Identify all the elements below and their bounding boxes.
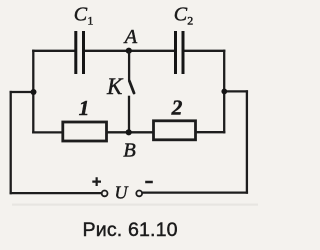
svg-text:C: C [174,4,188,26]
faint page shadow streak [12,204,258,206]
wire node A to C2 left plate [129,50,174,52]
capacitor C1 [74,4,94,75]
svg-text:B: B [123,140,136,162]
svg-text:C: C [74,4,88,26]
battery U: plus sign [92,177,101,186]
svg-text:1: 1 [87,14,93,28]
svg-text:2: 2 [171,96,183,120]
battery U: - terminal circle [136,191,142,197]
wire R1 to node B [107,131,129,133]
svg-text:A: A [123,26,138,48]
node A [123,26,138,54]
wire C1 right plate to node A [85,50,129,52]
capacitor C2 [174,4,194,75]
svg-text:K: K [106,74,124,99]
wire resistor row: left wall to R1 [33,131,62,133]
battery U: + terminal circle [102,191,108,197]
wire left outer vertical [10,92,12,193]
junction node on right wall [221,89,227,95]
wire right branch to outer loop [224,90,247,92]
wire bottom left to + terminal [11,192,102,194]
svg-text:1: 1 [79,96,90,120]
wire top rail left (left wall to C1 left plate) [33,50,74,52]
junction node on left wall [31,89,37,95]
wire C2 right plate to top-right corner [185,50,225,52]
wire right outer vertical [246,91,248,192]
switch K [129,51,134,133]
resistor R1 (1) [63,96,107,141]
node B [123,129,136,161]
resistor R2 (2) [154,96,196,140]
svg-text:U: U [115,183,129,203]
svg-text:Рис. 61.10: Рис. 61.10 [83,219,178,241]
wire node B to R2 [129,131,153,133]
wire left inner wall vertical [32,51,34,133]
battery U: minus sign [145,181,153,184]
wire left branch to outer loop [11,91,34,93]
svg-text:2: 2 [187,14,193,28]
wire R2 to right wall [197,131,225,133]
wire right inner wall vertical [223,51,225,132]
wire bottom right to - terminal [143,191,247,193]
